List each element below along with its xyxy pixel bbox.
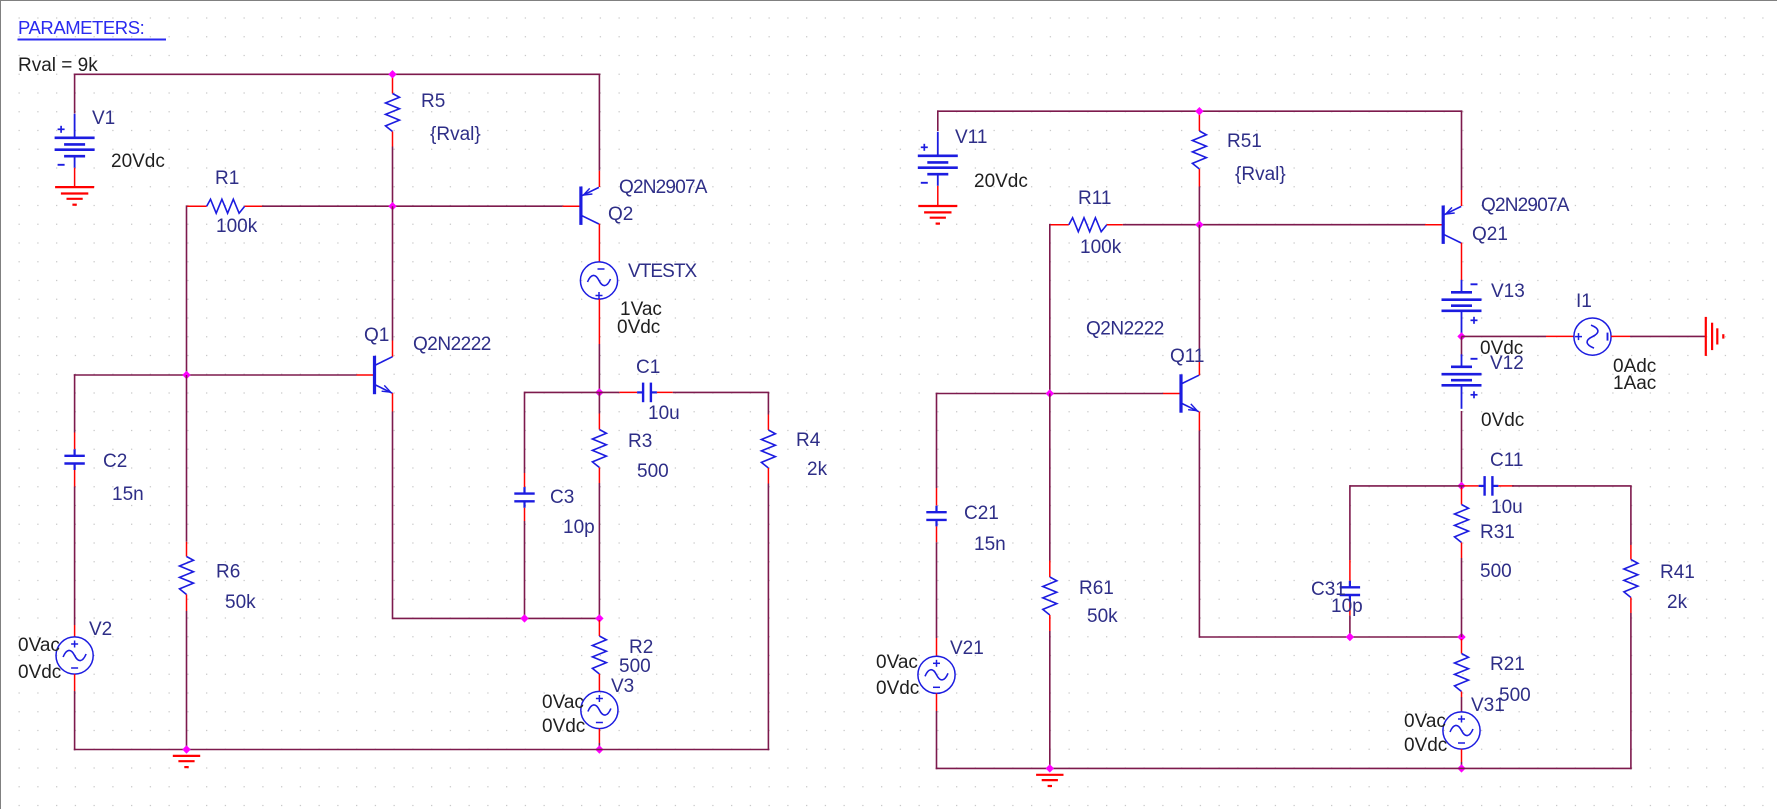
wire R11 corner down to Q11 base node xyxy=(1049,224,1051,394)
svg-text:R21: R21 xyxy=(1490,654,1525,675)
svg-text:R3: R3 xyxy=(628,431,652,452)
svg-text:Q2N2222: Q2N2222 xyxy=(413,334,491,355)
junction C11 node xyxy=(1457,482,1465,490)
svg-text:R11: R11 xyxy=(1078,188,1111,209)
junction ground / bottom rail (right) xyxy=(1046,764,1054,772)
voltage source V1 (battery) xyxy=(74,114,76,138)
svg-text:0Vdc: 0Vdc xyxy=(1404,735,1447,756)
wire C11 to R41 branch xyxy=(1512,485,1632,487)
wire R4 to bottom rail xyxy=(767,484,769,751)
voltage source V11 (battery) xyxy=(937,132,939,156)
svg-text:0Vac: 0Vac xyxy=(18,635,60,656)
svg-text:500: 500 xyxy=(1480,561,1512,582)
transistor Q1 base pin xyxy=(357,374,375,376)
svg-text:Q2N2907A: Q2N2907A xyxy=(619,177,708,198)
wire C11 node down to R31 xyxy=(1461,486,1463,488)
svg-text:V13: V13 xyxy=(1491,281,1525,302)
svg-text:500: 500 xyxy=(619,656,651,677)
transistor Q1 (NPN Q2N2222) xyxy=(373,356,376,394)
voltage source V13 (battery, flipped) xyxy=(1461,280,1463,293)
svg-text:C3: C3 xyxy=(550,487,574,508)
junction R1/R5/Q2 base node xyxy=(388,202,396,210)
wire V21 to bottom rail xyxy=(936,711,938,769)
wire V1 to ground (pin) xyxy=(74,168,76,187)
ground on bottom rail (right) xyxy=(1036,774,1063,776)
voltage source V12 (battery, flipped) xyxy=(1461,354,1463,367)
junction base wire / R6 xyxy=(182,371,190,379)
svg-text:V21: V21 xyxy=(950,638,984,659)
svg-text:PARAMETERS:: PARAMETERS: xyxy=(18,17,144,38)
wire Q11 emitter down xyxy=(1198,431,1200,638)
wire top rail left circuit xyxy=(74,73,600,75)
wire C3 branch top xyxy=(525,391,600,393)
wire C1 to R4 branch xyxy=(673,391,769,393)
svg-text:50k: 50k xyxy=(225,592,256,613)
voltage source V21 (VAC) xyxy=(918,656,955,693)
svg-text:0Vdc: 0Vdc xyxy=(18,662,61,683)
transistor Q11 collector pin xyxy=(1198,360,1200,375)
voltage source V2 (VAC) xyxy=(56,637,93,674)
svg-text:0Vdc: 0Vdc xyxy=(876,678,919,699)
svg-text:R41: R41 xyxy=(1660,562,1695,583)
transistor Q1 collector pin xyxy=(392,341,394,357)
svg-text:Q1: Q1 xyxy=(364,325,389,346)
wire R4 branch down xyxy=(767,392,769,414)
svg-text:V3: V3 xyxy=(611,676,634,697)
svg-text:C2: C2 xyxy=(103,451,127,472)
wire C3 to emitter node xyxy=(524,521,526,619)
resistor R31 xyxy=(1461,488,1463,505)
junction V3 / bottom rail xyxy=(595,745,603,753)
wire top rail right circuit xyxy=(937,110,1462,112)
transistor Q2 (PNP Q2N2907A) xyxy=(579,187,582,225)
junction top rail / R51 xyxy=(1195,107,1203,115)
ground below V1 xyxy=(55,186,94,188)
wire V2 to bottom rail xyxy=(74,691,76,750)
resistor R21 xyxy=(1461,639,1463,654)
svg-text:0Vdc: 0Vdc xyxy=(617,317,660,338)
svg-text:Q21: Q21 xyxy=(1472,224,1508,245)
transistor Q11 (NPN Q2N2222) xyxy=(1179,374,1182,412)
svg-text:R1: R1 xyxy=(215,168,239,189)
wire R61 branch xyxy=(1049,394,1051,561)
resistor R2 xyxy=(598,620,600,636)
wire Q2 collector to VTESTX xyxy=(598,241,600,262)
wire VTESTX bottom pin xyxy=(598,299,600,344)
wire R61 to bottom rail xyxy=(1049,631,1051,768)
wire R41 to bottom rail xyxy=(1630,613,1632,769)
svg-text:R5: R5 xyxy=(421,91,445,112)
svg-text:R2: R2 xyxy=(629,637,653,658)
resistor R11 xyxy=(1050,224,1069,226)
capacitor C11 xyxy=(1462,485,1465,487)
capacitor C21 xyxy=(936,488,938,506)
wire R41 branch down xyxy=(1630,486,1632,545)
svg-text:V31: V31 xyxy=(1471,695,1505,716)
resistor R5 xyxy=(392,74,394,93)
capacitor C1 xyxy=(599,391,619,393)
svg-text:V12: V12 xyxy=(1490,353,1524,374)
svg-text:50k: 50k xyxy=(1087,606,1118,627)
resistor R4 xyxy=(767,415,769,431)
resistor R3 xyxy=(598,414,600,430)
junction V13 / I1 node xyxy=(1457,332,1465,340)
wire Q1 base wire xyxy=(74,374,357,376)
svg-text:20Vdc: 20Vdc xyxy=(111,151,165,172)
ground on bottom rail (left) xyxy=(173,755,200,757)
voltage source V21 pin top xyxy=(936,638,938,656)
voltage source V31 (VAC) xyxy=(1443,712,1480,749)
wire Q1 emitter down xyxy=(392,412,394,620)
voltage source V31 pin bottom xyxy=(1461,749,1463,762)
ground right of I1 (sideways) xyxy=(1705,317,1707,356)
bottom rail left circuit xyxy=(74,749,769,751)
wire R1 corner down to Q1 base node xyxy=(186,205,188,375)
junction base wire / R61 xyxy=(1046,389,1054,397)
wire I1 to right ground xyxy=(1611,335,1630,337)
wire node down to Q11 collector xyxy=(1198,225,1200,360)
wire Q1 emitter to R2 node xyxy=(393,617,600,619)
resistor R41 xyxy=(1630,545,1632,560)
transistor Q21 collector pin xyxy=(1461,243,1463,280)
wire R51 to R11 node xyxy=(1198,187,1200,225)
wire V11 to ground (pin) xyxy=(937,186,939,206)
svg-text:{Rval}: {Rval} xyxy=(430,124,481,145)
svg-text:10u: 10u xyxy=(1491,497,1523,518)
transistor Q21 emitter pin xyxy=(1461,190,1463,206)
junction V31 / bottom rail xyxy=(1457,764,1465,772)
wire C21 branch top xyxy=(936,393,938,488)
svg-text:0Vdc: 0Vdc xyxy=(542,716,585,737)
wire C11 node left to C31 branch xyxy=(1350,485,1462,487)
svg-text:Q2N2907A: Q2N2907A xyxy=(1481,195,1570,216)
wire C21 to V21 xyxy=(936,542,938,638)
capacitor C3 xyxy=(524,473,526,487)
svg-text:Q11: Q11 xyxy=(1170,346,1205,367)
svg-text:R61: R61 xyxy=(1079,578,1114,599)
svg-text:0Vac: 0Vac xyxy=(542,692,584,713)
wire I1 node to I1 xyxy=(1462,335,1547,337)
svg-text:C21: C21 xyxy=(964,503,999,524)
wire Q11 emitter to R21 node xyxy=(1199,636,1462,638)
svg-text:2k: 2k xyxy=(807,459,828,480)
voltage source V21 pin bottom xyxy=(936,693,938,711)
svg-text:V1: V1 xyxy=(92,108,115,129)
wire V13 to V12 xyxy=(1461,336,1463,356)
junction R11/R51/Q11 collector node xyxy=(1195,221,1203,229)
wire top rail corner down to Q2 emitter xyxy=(598,74,600,171)
voltage source V3 pin bottom xyxy=(598,729,600,743)
svg-text:20Vdc: 20Vdc xyxy=(974,171,1028,192)
svg-text:1Aac: 1Aac xyxy=(1613,373,1656,394)
wire R5 bottom to node B xyxy=(392,147,394,207)
wire R6 to bottom rail xyxy=(186,611,188,750)
wire node B down to Q1 collector xyxy=(392,206,394,340)
svg-text:C1: C1 xyxy=(636,357,660,378)
transistor Q2 collector pin xyxy=(598,224,600,241)
svg-text:100k: 100k xyxy=(216,216,258,237)
svg-text:R31: R31 xyxy=(1480,522,1515,543)
transistor Q11 emitter pin xyxy=(1198,412,1200,431)
svg-text:I1: I1 xyxy=(1576,291,1592,312)
wire left branch down to C2 xyxy=(74,374,76,432)
transistor Q2 emitter pin xyxy=(598,171,600,187)
wire V1 branch top xyxy=(74,74,76,114)
svg-text:10p: 10p xyxy=(563,517,595,538)
svg-text:VTESTX: VTESTX xyxy=(628,261,697,282)
svg-text:Q2: Q2 xyxy=(608,204,633,225)
voltage source V2 pin bottom xyxy=(74,674,76,691)
wire C2 to V2 xyxy=(74,487,76,626)
ground below V11 xyxy=(918,205,957,207)
current source I1 (IAC) xyxy=(1574,318,1611,355)
junction R3 / R2 node xyxy=(595,614,603,622)
wire top rail corner down to Q21 emitter xyxy=(1461,110,1463,190)
transistor Q11 base pin xyxy=(1163,393,1181,395)
svg-text:0Vac: 0Vac xyxy=(1404,711,1446,732)
junction C1 node xyxy=(595,388,603,396)
svg-text:0Vac: 0Vac xyxy=(876,652,918,673)
svg-text:15n: 15n xyxy=(112,484,144,505)
svg-text:V2: V2 xyxy=(89,619,112,640)
svg-text:R4: R4 xyxy=(796,430,821,451)
wire C31 branch down xyxy=(1349,485,1351,560)
svg-text:R6: R6 xyxy=(216,562,240,583)
junction R31 bottom / R21 node xyxy=(1457,633,1465,641)
resistor R51 xyxy=(1198,111,1200,131)
wire V11 branch top xyxy=(937,110,939,131)
transistor Q2 base pin xyxy=(563,205,581,207)
svg-text:10u: 10u xyxy=(648,403,680,424)
junction ground / bottom rail xyxy=(182,745,190,753)
svg-text:R51: R51 xyxy=(1227,131,1262,152)
svg-text:V11: V11 xyxy=(955,127,987,148)
resistor R1 xyxy=(187,205,207,207)
page border xyxy=(0,0,2,809)
voltage source VTESTX (VAC) xyxy=(580,262,617,299)
capacitor C31 xyxy=(1349,560,1351,581)
svg-text:15n: 15n xyxy=(974,534,1006,555)
junction C3 / emitter wire xyxy=(520,614,528,622)
svg-text:100k: 100k xyxy=(1080,237,1122,258)
capacitor C2 xyxy=(74,433,76,450)
transistor Q21 base pin xyxy=(1425,224,1443,226)
svg-text:Rval = 9k: Rval = 9k xyxy=(18,55,98,76)
resistor R6 xyxy=(186,542,188,557)
svg-text:500: 500 xyxy=(637,461,669,482)
svg-text:0Vdc: 0Vdc xyxy=(1481,410,1524,431)
bottom rail right circuit xyxy=(936,767,1632,769)
wire R6 branch xyxy=(186,375,188,542)
svg-text:10p: 10p xyxy=(1331,596,1363,617)
svg-text:2k: 2k xyxy=(1667,592,1688,613)
svg-text:C11: C11 xyxy=(1490,450,1523,471)
voltage source V2 pin top xyxy=(74,625,76,637)
wire C1 node down to R3 xyxy=(598,392,600,413)
wire R1 to Q2 base node xyxy=(262,205,563,207)
svg-text:Q2N2222: Q2N2222 xyxy=(1086,319,1164,340)
svg-text:{Rval}: {Rval} xyxy=(1235,164,1286,185)
wire R31 to R21 node xyxy=(1461,558,1463,637)
wire V12 to C11 node xyxy=(1461,411,1463,487)
wire Q11 base wire xyxy=(936,393,1163,395)
transistor Q21 (PNP Q2N2907A) xyxy=(1442,206,1445,244)
wire C31 to R21 node wire xyxy=(1349,615,1351,637)
junction C31 / wire xyxy=(1346,633,1354,641)
wire VTESTX to C1 node xyxy=(598,344,600,393)
junction top rail / R5 xyxy=(388,70,396,78)
voltage source V3 (VAC) xyxy=(581,691,618,728)
wire R3 to emitter node xyxy=(598,483,600,618)
resistor R61 xyxy=(1049,561,1051,578)
transistor Q1 emitter pin xyxy=(392,393,394,411)
wire R11 to Q21 base xyxy=(1123,224,1425,226)
